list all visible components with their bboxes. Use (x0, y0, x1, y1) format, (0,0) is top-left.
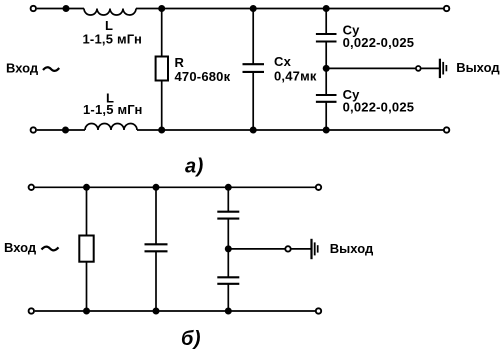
wire Cx branch lower (252, 72, 254, 130)
svg-text:Вход: Вход (4, 240, 37, 255)
input terminal top-left b (open circle) (29, 185, 34, 190)
wire bottom rail left segment (37, 129, 85, 131)
wire bottom rail right segment (137, 129, 444, 131)
wire Cy branch middle segment (325, 42, 327, 96)
capacitor top plates b (217, 211, 239, 213)
svg-text:а): а) (185, 156, 204, 178)
junction dot top rail b at Cy (225, 184, 232, 191)
svg-text:R: R (175, 55, 185, 70)
svg-text:1-1,5 мГн: 1-1,5 мГн (83, 32, 143, 47)
wire capacitor branch upper b (155, 187, 157, 244)
wire resistor branch lower b (86, 262, 88, 311)
svg-text:Вход: Вход (6, 61, 39, 76)
wire Cy branch middle segment b (227, 219, 229, 278)
input terminal bottom-left b (open circle) (29, 308, 34, 313)
ground symbol bottom circuit (312, 239, 318, 259)
wire circle to ground b (291, 248, 311, 250)
tap terminal circle (open) (416, 66, 421, 71)
junction dot bottom rail b at C (153, 308, 160, 315)
junction dot bottom rail at R (158, 127, 165, 134)
junction dot Cy midpoint b (225, 245, 232, 252)
junction dot top rail near input (63, 5, 70, 12)
svg-text:0,022-0,025: 0,022-0,025 (343, 35, 415, 50)
svg-text:0,022-0,025: 0,022-0,025 (343, 100, 415, 115)
wire Cy branch top segment (325, 9, 327, 35)
junction dot top rail at Cy (323, 5, 330, 12)
inductor L bottom (coil, bumps up) (85, 124, 137, 131)
junction dot top rail at Cx (250, 5, 257, 12)
junction dot top rail b at C (153, 184, 160, 191)
junction dot bottom rail near input (62, 127, 69, 134)
svg-text:1-1,5 мГн: 1-1,5 мГн (83, 102, 143, 117)
capacitor Cx plates (243, 63, 265, 65)
wire resistor branch upper (161, 9, 163, 58)
wire midpoint tap to output circle (326, 67, 415, 69)
svg-text:Выход: Выход (456, 60, 500, 75)
wire capacitor branch lower b (155, 251, 157, 311)
capacitor Cy bottom plates (316, 94, 337, 96)
junction dot bottom rail at Cx (250, 127, 257, 134)
junction dot bottom rail b at R (83, 308, 90, 315)
output terminal top-right b (open circle) (316, 185, 321, 190)
junction dot top rail at R (158, 5, 165, 12)
wire resistor branch upper b (86, 187, 88, 236)
wire top rail left segment (37, 8, 84, 10)
junction dot top rail b at R (83, 184, 90, 191)
svg-text:470-680к: 470-680к (175, 69, 231, 84)
svg-text:0,47мк: 0,47мк (274, 69, 317, 84)
output terminal top-right (open circle) (444, 6, 449, 11)
wire midpoint tap to output circle b (228, 248, 285, 250)
AC tilde top (43, 67, 59, 71)
inductor L top (coil, bumps down) (84, 9, 136, 16)
svg-text:Выход: Выход (330, 241, 374, 256)
capacitor Cy top plates (316, 33, 337, 35)
junction dot Cy midpoint (323, 65, 330, 72)
resistor body b (79, 236, 93, 262)
capacitor bottom plates b (217, 276, 239, 278)
tap terminal circle b (open) (285, 246, 290, 251)
input terminal top-left (open circle) (31, 6, 36, 11)
svg-text:Cx: Cx (274, 54, 292, 69)
output terminal bottom-right b (open circle) (316, 308, 321, 313)
wire top rail right segment (136, 8, 444, 10)
wire Cx branch upper (252, 9, 254, 65)
junction dot bottom rail at Cy (323, 127, 330, 134)
input terminal bottom-left (open circle) (31, 127, 36, 132)
wire Cy branch bottom segment (325, 102, 327, 130)
junction dot bottom rail b at Cy (225, 308, 232, 315)
wire resistor branch lower (161, 81, 163, 131)
wire circle to ground (421, 67, 439, 69)
svg-text:б): б) (181, 328, 201, 350)
wire Cy branch top segment b (227, 187, 229, 212)
wire bottom rail b (35, 310, 316, 312)
output terminal bottom-right (open circle) (444, 127, 449, 132)
capacitor plates b middle branch (145, 243, 168, 245)
wire top rail b (35, 186, 316, 188)
AC tilde bottom (42, 247, 59, 251)
resistor R body (156, 57, 168, 81)
wire Cy branch bottom segment b (227, 284, 229, 311)
ground symbol top circuit (440, 59, 447, 78)
